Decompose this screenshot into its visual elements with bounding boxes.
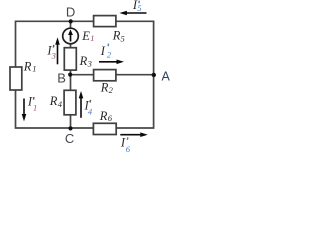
svg-text:3: 3: [51, 50, 56, 60]
current arrow I5: [126, 12, 147, 14]
svg-text:R: R: [49, 94, 58, 108]
source E1 internal arrow: [70, 33, 72, 42]
svg-text:R: R: [100, 81, 109, 95]
svg-text:4: 4: [88, 107, 93, 117]
svg-text:2: 2: [109, 85, 114, 95]
svg-text:5: 5: [137, 3, 141, 13]
svg-text:6: 6: [108, 113, 113, 123]
current arrow I1: [23, 99, 25, 115]
svg-text:6: 6: [126, 144, 131, 154]
current arrow I2: [99, 61, 118, 63]
current arrow I3: [57, 44, 59, 64]
node B: [68, 73, 72, 77]
resistor R2: [94, 70, 116, 81]
svg-text:I: I: [100, 44, 106, 58]
svg-text:1: 1: [90, 33, 94, 43]
resistor R5: [94, 16, 116, 27]
svg-text:4: 4: [58, 99, 63, 109]
current arrow I4: [80, 98, 82, 118]
resistor R6: [93, 123, 116, 134]
node D: [69, 19, 73, 23]
wire center vertical D to C: [70, 21, 72, 128]
node C: [68, 126, 72, 130]
wire middle B to A: [71, 74, 154, 76]
svg-text:R: R: [99, 109, 108, 123]
node A: [152, 73, 156, 77]
svg-text:E: E: [81, 29, 90, 43]
resistor R3: [64, 48, 76, 70]
svg-text:1: 1: [33, 103, 37, 113]
svg-text:2: 2: [107, 50, 112, 60]
wire top: corner D segment left: [16, 21, 154, 128]
source E1 circle: [63, 28, 79, 44]
resistor R1: [10, 67, 22, 90]
svg-text:R: R: [112, 28, 121, 42]
svg-text:D: D: [66, 4, 75, 19]
svg-text:R: R: [23, 59, 32, 73]
resistor R4: [64, 90, 76, 115]
svg-text:5: 5: [121, 33, 125, 43]
current arrow I6: [120, 134, 141, 136]
svg-text:1: 1: [32, 63, 36, 73]
svg-text:C: C: [65, 131, 74, 146]
svg-text:3: 3: [87, 59, 92, 69]
svg-text:I: I: [27, 95, 33, 109]
svg-text:B: B: [57, 71, 66, 86]
svg-text:A: A: [162, 69, 171, 83]
svg-text:R: R: [79, 54, 88, 68]
